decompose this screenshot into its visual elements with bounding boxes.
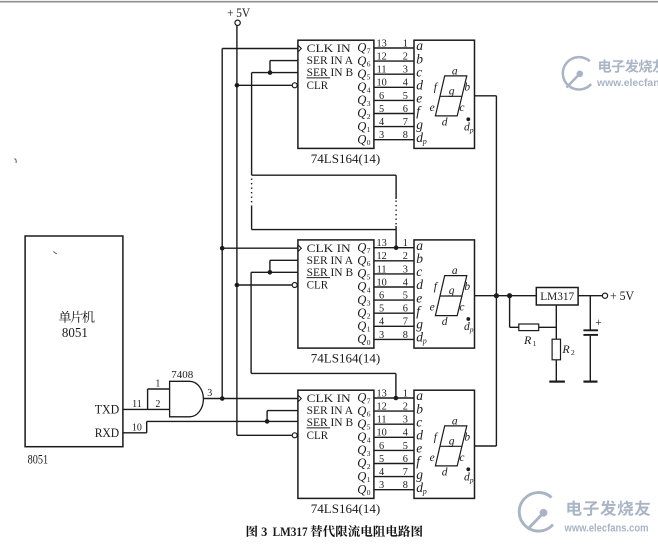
AND gate U4: 7408 — [170, 381, 204, 417]
svg-text:d: d — [442, 316, 448, 328]
svg-text:2: 2 — [367, 462, 371, 471]
svg-text:4: 4 — [367, 86, 371, 95]
svg-text:3: 3 — [379, 480, 384, 491]
ground bar (R2) — [549, 381, 565, 383]
svg-text:7: 7 — [367, 246, 371, 255]
svg-text:Q: Q — [357, 254, 366, 268]
svg-text:1: 1 — [533, 339, 537, 348]
svg-text:3: 3 — [403, 415, 408, 426]
svg-text:2: 2 — [403, 402, 408, 413]
svg-text:e: e — [430, 102, 435, 114]
pin CLK IN wedge U3 — [298, 395, 301, 402]
svg-text:CLK IN: CLK IN — [307, 43, 352, 55]
svg-text:12: 12 — [376, 251, 386, 262]
svg-text:5: 5 — [403, 291, 408, 302]
svg-text:11: 11 — [132, 399, 142, 410]
svg-text:R: R — [561, 342, 570, 356]
svg-text:3: 3 — [379, 130, 384, 141]
svg-text:Q: Q — [357, 293, 366, 307]
svg-text:Q: Q — [357, 306, 366, 320]
+5V output terminal circle — [602, 293, 607, 298]
svg-text:2: 2 — [403, 52, 408, 63]
wire R1 to R2 node — [539, 326, 557, 328]
svg-text:Q: Q — [357, 54, 366, 68]
svg-text:4: 4 — [379, 117, 384, 128]
svg-text:a: a — [452, 265, 458, 277]
caption 图3 LM317替代限流电阻电路图 — [247, 525, 258, 537]
svg-text:SER IN A: SER IN A — [307, 405, 354, 417]
svg-text:CLR: CLR — [307, 280, 329, 292]
svg-text:5: 5 — [379, 104, 384, 115]
watermark 电子发烧友 (bottom right) — [567, 500, 581, 515]
svg-text:11: 11 — [377, 415, 387, 426]
wire Q4 to display segment d — [374, 86, 414, 88]
+5V supply terminal circle (top) — [235, 20, 240, 25]
svg-text:p: p — [422, 137, 427, 146]
svg-text:1: 1 — [403, 388, 408, 399]
shift register U2: 74LS164 IC box — [298, 240, 374, 348]
wire capacitor branch vertical — [589, 296, 591, 330]
svg-text:Q: Q — [357, 80, 366, 94]
wire capacitor to ground bar — [589, 336, 591, 381]
svg-text:Q: Q — [357, 469, 366, 483]
svg-text:TXD: TXD — [95, 403, 120, 417]
wire Q5 to display segment c — [374, 423, 414, 425]
svg-text:p: p — [469, 125, 474, 134]
svg-text:8: 8 — [403, 330, 408, 341]
svg-text:p: p — [469, 475, 474, 484]
resistor R2 body — [552, 339, 560, 360]
svg-text:4: 4 — [379, 317, 384, 328]
wire Q7 to display segment a — [374, 397, 414, 399]
wire Q2 to display segment f — [374, 113, 414, 115]
wire display DS1 common stub — [475, 95, 497, 97]
svg-text:13: 13 — [376, 38, 386, 49]
svg-text:1: 1 — [367, 325, 371, 334]
svg-text:0: 0 — [367, 338, 371, 347]
wire Q7 to display segment a — [374, 47, 414, 49]
svg-text:10: 10 — [376, 428, 386, 439]
svg-text:3: 3 — [403, 264, 408, 275]
wire Q0 to display segment dp — [374, 489, 414, 491]
svg-text:74LS164(14): 74LS164(14) — [311, 502, 381, 516]
wire clock to CLK IN U2 — [222, 247, 298, 249]
wire Q4 to display segment d — [374, 436, 414, 438]
svg-text:2: 2 — [403, 251, 408, 262]
svg-text:SER IN A: SER IN A — [307, 55, 354, 67]
wire RXD to SER IN B U3 — [147, 420, 298, 422]
svg-text:4: 4 — [403, 277, 408, 288]
7-segment figure DS1 — [435, 76, 466, 116]
svg-text:6: 6 — [403, 454, 408, 465]
wire to gate input 1 — [148, 388, 170, 390]
svg-text:3: 3 — [207, 388, 212, 399]
svg-text:3: 3 — [367, 449, 371, 458]
wire cascade U2 vertical — [250, 272, 252, 373]
wire SER IN A U1 — [270, 60, 298, 62]
wire gate input tie vertical — [147, 389, 149, 409]
svg-text:c: c — [459, 302, 464, 314]
svg-text:Q: Q — [357, 443, 366, 457]
svg-text:Q: Q — [357, 391, 366, 405]
svg-text:CLR: CLR — [307, 430, 329, 442]
svg-text:1: 1 — [155, 379, 160, 390]
wire cascade U3.Q7 horizontal — [251, 372, 396, 374]
svg-text:74LS164(14): 74LS164(14) — [311, 152, 381, 166]
junction dot clock bus / CLK U2 — [220, 246, 225, 251]
svg-text:p: p — [469, 325, 474, 334]
wire clock bus vertical (7408 output to all CLK) — [221, 49, 223, 399]
svg-text:+ 5V: + 5V — [610, 289, 634, 303]
svg-text:+ 5V: + 5V — [227, 6, 250, 20]
svg-text:www.elecfans.com: www.elecfans.com — [564, 523, 649, 535]
wire +5V to CLR of U1 — [237, 84, 292, 86]
svg-text:Q: Q — [357, 119, 366, 133]
svg-text:Q: Q — [357, 482, 366, 496]
svg-text:c: c — [459, 102, 464, 114]
svg-text:Q: Q — [357, 41, 366, 55]
junction dot bus / DS2 stub — [494, 293, 499, 298]
svg-text:12: 12 — [376, 52, 386, 63]
svg-text:RXD: RXD — [95, 426, 120, 440]
decimal point dot DS3 — [466, 467, 470, 471]
wire SER IN A U2 — [270, 259, 298, 261]
wire cascade lower horizontal — [252, 229, 397, 231]
wire SER A-B tie vertical U1 — [269, 61, 271, 73]
svg-text:e: e — [430, 302, 435, 314]
svg-text:10: 10 — [376, 277, 386, 288]
svg-text:b: b — [464, 432, 470, 444]
svg-text:4: 4 — [379, 467, 384, 478]
svg-text:6: 6 — [379, 91, 384, 102]
wire cascade right vertical upper — [395, 175, 397, 199]
wire ADJ branch vertical — [509, 296, 511, 328]
svg-text:a: a — [452, 65, 458, 77]
svg-text:10: 10 — [132, 423, 142, 434]
decimal point dot DS2 — [466, 317, 470, 321]
svg-text:Q: Q — [357, 404, 366, 418]
7-segment display DS2 box — [414, 240, 475, 348]
wire Q5 to display segment c — [374, 73, 414, 75]
svg-text:10: 10 — [376, 78, 386, 89]
svg-text:12: 12 — [376, 402, 386, 413]
svg-text:3: 3 — [261, 525, 267, 539]
svg-text:4: 4 — [403, 78, 408, 89]
svg-text:Q: Q — [357, 106, 366, 120]
svg-text:3: 3 — [367, 299, 371, 308]
svg-text:6: 6 — [379, 291, 384, 302]
pin CLK IN wedge U2 — [298, 245, 301, 252]
regulator U5: LM317 box — [536, 288, 578, 306]
wire Q1 to display segment g — [374, 325, 414, 327]
svg-text:2: 2 — [571, 348, 575, 357]
svg-text:LM317: LM317 — [273, 525, 308, 539]
pin CLR bubble U1 — [292, 83, 297, 88]
svg-text:2: 2 — [367, 112, 371, 121]
svg-text:5: 5 — [367, 423, 371, 432]
wire Q3 to display segment e — [374, 99, 414, 101]
svg-text:6: 6 — [403, 304, 408, 315]
wire Q3 to display segment e — [374, 449, 414, 451]
wire SER IN B U1 — [252, 72, 298, 74]
label 单片机 — [59, 311, 71, 323]
svg-text:5: 5 — [367, 73, 371, 82]
svg-text:g: g — [449, 85, 455, 97]
shift register U3: 74LS164 IC box — [298, 390, 374, 498]
wire gate output to CLK IN U3 — [203, 398, 298, 400]
wire Q6 to display segment b — [374, 410, 414, 412]
svg-text:www.elecfans.com: www.elecfans.com — [596, 78, 658, 89]
wire cascade vertical into Q7 node of U2 — [395, 246, 397, 249]
svg-text:1: 1 — [403, 238, 408, 249]
junction dot SER A/B tie U1 — [268, 70, 273, 75]
svg-text:0: 0 — [367, 488, 371, 497]
svg-text:13: 13 — [376, 388, 386, 399]
svg-text:LM317: LM317 — [540, 291, 574, 303]
svg-text:3: 3 — [379, 330, 384, 341]
svg-text:d: d — [442, 466, 448, 478]
svg-text:Q: Q — [357, 456, 366, 470]
wire cascade upper horizontal — [252, 174, 397, 176]
svg-text:1: 1 — [403, 38, 408, 49]
svg-text:Q: Q — [357, 417, 366, 431]
svg-text:CLK IN: CLK IN — [307, 243, 352, 255]
svg-text:8051: 8051 — [62, 326, 88, 341]
svg-text:SER IN A: SER IN A — [307, 255, 354, 267]
dotted omission left — [251, 179, 253, 206]
svg-text:R: R — [523, 333, 532, 347]
junction dot SER A/B tie U2 — [268, 270, 273, 275]
wire RXD jog vertical — [146, 421, 148, 432]
scan speck in 8051 box — [54, 252, 58, 254]
scan speck left margin — [15, 159, 17, 164]
svg-text:5: 5 — [379, 304, 384, 315]
svg-text:1: 1 — [367, 125, 371, 134]
svg-text:13: 13 — [376, 238, 386, 249]
wire ADJ to R1 — [510, 326, 519, 328]
svg-text:4: 4 — [403, 428, 408, 439]
svg-text:7408: 7408 — [171, 369, 194, 381]
svg-text:g: g — [449, 285, 455, 297]
svg-text:b: b — [464, 281, 470, 293]
wire R2 to ground bar — [555, 360, 557, 381]
wire cascade left vertical lower — [251, 206, 253, 230]
svg-text:11: 11 — [377, 264, 387, 275]
svg-text:Q: Q — [357, 67, 366, 81]
svg-text:8: 8 — [403, 130, 408, 141]
svg-text:0: 0 — [367, 138, 371, 147]
wire RXD segment 1 — [123, 432, 147, 434]
junction dot Q7(U3) to SER of previous stage — [394, 396, 399, 401]
svg-text:6: 6 — [379, 441, 384, 452]
7-segment figure DS2 — [435, 276, 466, 316]
svg-text:6: 6 — [367, 259, 371, 268]
7-segment display DS3 box — [414, 390, 475, 498]
wire Q2 to display segment f — [374, 463, 414, 465]
junction dot clock bus / gate output — [220, 396, 225, 401]
7-segment display DS1 box — [414, 40, 475, 148]
svg-text:7: 7 — [367, 396, 371, 405]
wire SER IN A U3 — [267, 410, 298, 412]
wire cascade U1 vertical upper — [251, 73, 253, 176]
svg-text:4: 4 — [367, 285, 371, 294]
svg-text:74LS164(14): 74LS164(14) — [311, 352, 381, 366]
svg-text:e: e — [430, 452, 435, 464]
svg-text:6: 6 — [403, 104, 408, 115]
svg-text:6: 6 — [367, 60, 371, 69]
svg-text:Q: Q — [357, 332, 366, 346]
svg-text:2: 2 — [155, 399, 160, 410]
top page rule — [0, 1, 658, 3]
decimal point dot DS1 — [466, 117, 470, 121]
wire SER A-B tie vertical U3 — [266, 411, 268, 422]
svg-text:1: 1 — [367, 475, 371, 484]
watermark logo circle (bottom right) — [519, 493, 553, 532]
wire Q6 to display segment b — [374, 60, 414, 62]
svg-text:CLK IN: CLK IN — [307, 393, 352, 405]
svg-text:Q: Q — [357, 132, 366, 146]
wire cascade U3.Q7 vertical — [395, 373, 397, 398]
svg-text:SER IN B: SER IN B — [307, 67, 354, 79]
svg-text:Q: Q — [357, 267, 366, 281]
svg-text:3: 3 — [367, 99, 371, 108]
wire Q0 to display segment dp — [374, 139, 414, 141]
svg-text:a: a — [452, 415, 458, 427]
capacitor C1 plate bottom — [583, 334, 598, 336]
svg-text:p: p — [422, 337, 427, 346]
wire cascade vertical into Q7 node of U3 — [395, 397, 397, 400]
svg-text:Q: Q — [357, 280, 366, 294]
wire display common bus vertical — [495, 96, 497, 446]
wire Q7 to display segment a — [374, 247, 414, 249]
svg-text:d: d — [442, 116, 448, 128]
wire +5V rail to CLR of U3 — [237, 434, 292, 436]
svg-text:Q: Q — [357, 240, 366, 254]
svg-text:Q: Q — [357, 430, 366, 444]
wire display DS3 common stub — [475, 445, 497, 447]
svg-text:b: b — [464, 82, 470, 94]
wire Q2 to display segment f — [374, 312, 414, 314]
microcontroller 8051 box — [25, 236, 123, 447]
svg-text:6: 6 — [367, 410, 371, 419]
wire SER IN B U2 — [251, 271, 298, 273]
junction dot +5V rail / CLR U2 — [235, 283, 240, 288]
wire Q5 to display segment c — [374, 273, 414, 275]
svg-text:8: 8 — [403, 480, 408, 491]
svg-text:7: 7 — [367, 46, 371, 55]
wire Q4 to display segment d — [374, 286, 414, 288]
wire LM317 output — [578, 295, 602, 297]
wire cascade right vertical lower — [395, 226, 397, 248]
resistor R1 body — [519, 324, 539, 331]
junction dot RXD / SER A U3 — [265, 419, 270, 424]
wire display DS2 stub to LM317 — [475, 295, 537, 297]
wire LM317 ADJ pin down — [555, 305, 557, 339]
junction dot Q7(U2) to SER of previous stage — [394, 245, 399, 250]
svg-text:+: + — [595, 317, 602, 329]
svg-text:3: 3 — [403, 65, 408, 76]
svg-text:CLR: CLR — [307, 80, 329, 92]
wire clock to CLK IN U1 — [222, 48, 298, 50]
ground bar (C1) — [583, 381, 597, 383]
watermark 电子发烧友 (top right) — [599, 60, 611, 73]
pin CLR bubble U3 — [292, 433, 297, 438]
svg-text:2: 2 — [367, 312, 371, 321]
wire TXD to gate input 2 — [123, 408, 170, 410]
capacitor C1 plate top — [583, 329, 598, 331]
wire Q6 to display segment b — [374, 260, 414, 262]
svg-text:5: 5 — [403, 441, 408, 452]
junction dot +5V rail / CLR U1 — [235, 83, 240, 88]
wire +5V rail vertical — [236, 26, 238, 436]
pin CLR bubble U2 — [292, 283, 297, 288]
svg-text:p: p — [422, 487, 427, 496]
wire +5V to CLR of U2 — [237, 284, 292, 286]
wire Q3 to display segment e — [374, 299, 414, 301]
svg-text:c: c — [459, 452, 464, 464]
shift register U1: 74LS164 IC box — [298, 40, 374, 148]
svg-text:7: 7 — [403, 467, 408, 478]
svg-text:5: 5 — [403, 91, 408, 102]
svg-text:Q: Q — [357, 319, 366, 333]
dotted omission right — [395, 201, 397, 227]
svg-text:7: 7 — [403, 317, 408, 328]
junction dot LM317 input branch — [507, 293, 512, 298]
7-segment figure DS3 — [435, 426, 466, 466]
wire Q1 to display segment g — [374, 476, 414, 478]
svg-text:8051: 8051 — [28, 452, 48, 467]
wire Q1 to display segment g — [374, 126, 414, 128]
pin CLK IN wedge U1 — [298, 45, 301, 52]
wire Q0 to display segment dp — [374, 338, 414, 340]
svg-text:5: 5 — [367, 272, 371, 281]
svg-text:5: 5 — [379, 454, 384, 465]
watermark logo circle (top right) — [563, 57, 591, 89]
wire SER A-B tie vertical U2 — [269, 260, 271, 272]
svg-text:Q: Q — [357, 93, 366, 107]
svg-text:g: g — [449, 435, 455, 447]
svg-text:7: 7 — [403, 117, 408, 128]
svg-text:4: 4 — [367, 436, 371, 445]
svg-text:11: 11 — [377, 65, 387, 76]
